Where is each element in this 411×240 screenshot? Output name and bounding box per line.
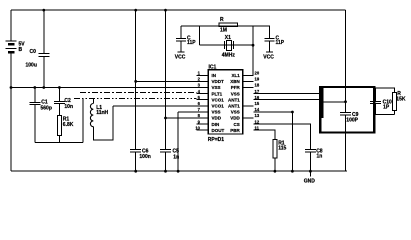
capacitor C8 1n — [305, 149, 316, 152]
wire pin16 to module — [254, 99, 321, 101]
svg-text:VCO1: VCO1 — [212, 104, 225, 109]
IC1 body — [208, 70, 243, 134]
capacitor C 11P right — [265, 38, 275, 41]
capacitor C9 100P — [340, 112, 351, 115]
wire left 11P branch — [180, 26, 182, 38]
wire mid rail — [11, 87, 208, 89]
wire pin7 ground leg — [177, 112, 179, 171]
capacitor C10 1P — [370, 101, 381, 103]
svg-text:GND: GND — [304, 178, 316, 184]
resistor R1 115 — [273, 139, 277, 158]
wire pin8 row — [166, 117, 209, 119]
svg-text:1P: 1P — [383, 105, 390, 111]
svg-text:14: 14 — [255, 107, 260, 112]
svg-text:100P: 100P — [346, 118, 358, 124]
wire to VCC right — [269, 41, 271, 51]
svg-text:XBN: XBN — [230, 79, 240, 84]
wire right top corner to right 11P — [253, 26, 270, 38]
svg-text:VDD: VDD — [212, 116, 222, 121]
svg-text:1n: 1n — [173, 154, 179, 160]
wire C10 branch top — [375, 88, 377, 101]
svg-text:C0: C0 — [30, 49, 37, 55]
svg-text:VSS: VSS — [212, 85, 221, 90]
svg-text:560p: 560p — [41, 105, 52, 111]
svg-text:16: 16 — [255, 95, 260, 100]
svg-text:VSS: VSS — [231, 91, 240, 96]
wire vertical branch x=165.5 — [165, 10, 167, 149]
svg-text:VDDT: VDDT — [212, 79, 225, 84]
svg-text:VCC: VCC — [175, 54, 186, 60]
crystal X1 4MHz — [225, 41, 234, 51]
svg-text:VCO1: VCO1 — [212, 97, 225, 102]
battery B 5V — [6, 41, 17, 52]
wire vertical branch x=135.7 — [135, 10, 137, 149]
svg-text:DOUT: DOUT — [212, 128, 225, 133]
dashed line A — [80, 92, 197, 93]
wire L1 top lead — [92, 98, 94, 104]
capacitor C0 100u — [38, 54, 49, 57]
wire crystal top row — [181, 25, 253, 27]
svg-text:ANT1: ANT1 — [228, 97, 240, 102]
svg-text:11P: 11P — [187, 40, 196, 46]
svg-text:18: 18 — [255, 83, 260, 88]
svg-text:11: 11 — [255, 125, 260, 130]
wire pin17 to module — [254, 93, 321, 95]
svg-text:15: 15 — [255, 101, 260, 106]
svg-text:10n: 10n — [64, 104, 73, 110]
wire C1 branch top — [34, 88, 36, 102]
wire crystal drop — [198, 26, 200, 45]
resistor R 1M — [219, 23, 238, 27]
svg-text:6.8K: 6.8K — [63, 122, 74, 128]
svg-text:RP=D1: RP=D1 — [208, 137, 224, 143]
module thick box — [320, 87, 374, 133]
svg-text:4MHz: 4MHz — [222, 53, 236, 59]
wire RC bottom — [376, 114, 395, 116]
wire pin14 down leg — [254, 112, 293, 171]
module left electrode bar — [320, 88, 323, 118]
power VCC left — [178, 51, 185, 53]
svg-text:17: 17 — [255, 89, 260, 94]
wire C10 bottom — [375, 104, 377, 115]
wire battery bottom to bottom rail — [10, 54, 12, 172]
wire C2 to R1 — [58, 104, 60, 116]
wire C5 bottom — [165, 152, 167, 171]
svg-text:CS: CS — [234, 122, 240, 127]
svg-text:R: R — [220, 17, 224, 23]
power VCC right — [266, 51, 273, 53]
wire L1 bottom U loop — [93, 106, 113, 140]
wire module to RC top — [374, 88, 394, 93]
svg-text:19: 19 — [255, 77, 260, 82]
wire to VCC left — [180, 41, 182, 51]
svg-text:B: B — [19, 47, 23, 53]
svg-text:PLT1: PLT1 — [212, 91, 223, 96]
svg-text:115: 115 — [278, 145, 286, 151]
pin numbers right — [255, 71, 260, 131]
svg-text:11P: 11P — [276, 40, 285, 46]
wire pin7 row — [178, 111, 208, 113]
capacitor C6 100n — [130, 149, 141, 152]
module inner wire — [322, 101, 346, 103]
inductor L1 11nH — [90, 104, 93, 127]
wire R1 bottom — [58, 136, 60, 143]
wire R 15K bottom — [393, 111, 395, 115]
svg-text:ANT1: ANT1 — [228, 104, 240, 109]
IC1 right pin leads — [243, 75, 254, 118]
wire tank left leg — [82, 99, 84, 143]
svg-text:20: 20 — [255, 71, 260, 76]
pin numbers left — [195, 71, 200, 131]
wire C1 bottom — [34, 105, 36, 142]
wire top rail — [11, 9, 346, 11]
svg-text:1n: 1n — [317, 153, 323, 159]
dashed line B — [74, 98, 197, 99]
svg-text:DIN: DIN — [212, 122, 220, 127]
wire C8 bottom — [309, 152, 311, 171]
capacitor C5 1n — [160, 149, 171, 152]
wire pin12 to C8 — [254, 124, 311, 149]
svg-text:PBR: PBR — [230, 128, 240, 133]
wire C0 bottom — [43, 57, 45, 88]
wire C6 bottom — [135, 152, 137, 171]
wire crystal row — [199, 44, 253, 46]
svg-text:12: 12 — [255, 119, 260, 124]
wire pin11 to R1 115 — [254, 130, 275, 139]
IC1 left pin leads — [197, 75, 209, 130]
capacitor C1 560p — [29, 102, 40, 104]
svg-text:100n: 100n — [139, 154, 150, 160]
wire C2 branch top — [58, 88, 60, 102]
svg-text:PFR: PFR — [231, 85, 241, 90]
wire crystal node to pin20 — [252, 26, 254, 75]
wire C0 branch top — [43, 10, 45, 53]
wire pin2 row — [136, 80, 209, 82]
svg-text:10: 10 — [195, 125, 200, 130]
svg-text:1M: 1M — [220, 27, 227, 33]
resistor R 15K — [392, 93, 396, 111]
wire bottom rail — [11, 170, 347, 172]
wire pin6 row — [113, 105, 208, 107]
wire tank bottom — [35, 141, 83, 143]
svg-text:100u: 100u — [26, 63, 37, 69]
svg-text:VSS: VSS — [231, 110, 240, 115]
capacitor C 11P left — [176, 38, 186, 41]
wire left main vertical (battery branch) — [10, 10, 12, 41]
wire C9 bottom to bottom rail — [345, 116, 347, 172]
wire R1 115 bottom — [274, 158, 276, 171]
svg-text:IN: IN — [212, 73, 217, 78]
wire right vertical from top rail — [345, 10, 347, 112]
svg-text:XL1: XL1 — [232, 73, 241, 78]
svg-text:VCC: VCC — [263, 54, 274, 60]
svg-text:X1: X1 — [225, 35, 231, 41]
capacitor C2 10n — [54, 102, 65, 104]
svg-text:IC1: IC1 — [209, 64, 217, 70]
resistor R1 6.8K — [57, 116, 61, 136]
svg-text:15K: 15K — [396, 96, 406, 102]
svg-text:13: 13 — [255, 113, 260, 118]
svg-text:11nH: 11nH — [96, 110, 108, 116]
ground GND — [309, 171, 311, 176]
svg-text:VSS: VSS — [212, 110, 221, 115]
svg-text:VDD: VDD — [230, 116, 240, 121]
IC1 pin row texts — [212, 73, 241, 133]
